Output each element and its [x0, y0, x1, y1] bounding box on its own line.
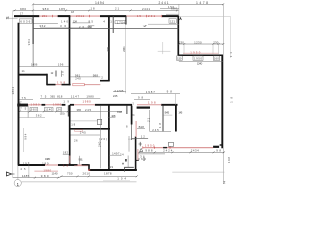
red vert window x136: [137, 149, 139, 160]
svg-text:245: 245: [80, 130, 86, 134]
dark segs: [42, 104, 178, 106]
svg-text:365: 365: [50, 95, 55, 99]
red segs: [28, 104, 162, 106]
dim line y154 right: [139, 153, 165, 155]
box outside corner: [125, 167, 134, 171]
vert x28: [27, 106, 29, 118]
svg-text:150: 150: [177, 57, 182, 61]
wall y107.6: [137, 106, 150, 108]
svg-text:1878: 1878: [104, 171, 112, 175]
small dark arrow: [143, 25, 147, 27]
faint line: [103, 180, 130, 182]
svg-text:1140: 1140: [52, 171, 58, 175]
dim line row1: [33, 3, 223, 5]
svg-text:240: 240: [97, 141, 101, 147]
line y14.2: [166, 13, 179, 15]
svg-text:988: 988: [93, 73, 99, 77]
svg-text:1406: 1406: [31, 63, 38, 67]
wall x126 short: [125, 16, 127, 25]
svg-text:75: 75: [22, 96, 27, 100]
top wall window red segments: [39, 15, 162, 17]
vert dim line x23.6: [23, 128, 25, 152]
svg-text:750: 750: [67, 171, 73, 175]
svg-text:45: 45: [20, 167, 26, 171]
svg-text:1485: 1485: [22, 174, 30, 178]
ext x230: [229, 16, 231, 58]
svg-text:19: 19: [63, 99, 69, 103]
svg-text:21: 21: [115, 7, 119, 11]
step corner x88-90: [88, 164, 90, 170]
vert tick x79.6: [79, 156, 81, 165]
dim line y98.3: [40, 97, 100, 99]
wall x70 lower: [69, 105, 71, 166]
dark corner seg right: [213, 146, 219, 148]
svg-text:B: B: [122, 89, 124, 93]
thin vert x100.6: [100, 106, 102, 169]
svg-text:201: 201: [42, 14, 47, 18]
svg-text:201: 201: [148, 14, 155, 18]
svg-text:B45: B45: [165, 110, 170, 114]
dim ticks y111.4: [19, 110, 69, 112]
dim line y152.3: [139, 151, 225, 153]
svg-text:(20): (20): [99, 137, 107, 141]
red line over mid: [74, 165, 90, 167]
svg-text:230: 230: [179, 40, 184, 44]
svg-text:1147: 1147: [71, 94, 80, 98]
wall x170.5: [175, 106, 177, 132]
svg-text:984: 984: [27, 39, 31, 45]
dim line y99.7: [20, 99, 34, 101]
svg-text:121: 121: [170, 19, 175, 23]
extension x223 right full: [222, 4, 224, 184]
red ticks: [143, 146, 170, 148]
wall stub y80.7: [100, 80, 110, 82]
svg-text:981: 981: [79, 158, 84, 162]
vert dim tick x61.5: [61, 71, 63, 77]
top-right wall y55: [178, 54, 223, 56]
thin line y26.8: [33, 28, 179, 30]
svg-text:198: 198: [227, 157, 231, 163]
dim ticks row2: [14, 3, 225, 11]
bottom-left wall y165: [18, 164, 89, 166]
svg-text:1980: 1980: [31, 103, 40, 107]
red segs bottom-left wall: [45, 164, 82, 166]
svg-text:198: 198: [148, 100, 156, 104]
closet divider x113: [112, 16, 114, 33]
extension x179 top: [178, 4, 180, 16]
svg-text:2441: 2441: [122, 46, 126, 52]
svg-text:198: 198: [57, 80, 65, 84]
svg-text:1950: 1950: [190, 50, 200, 54]
svg-text:1494: 1494: [95, 1, 104, 5]
small arrow mark: [140, 148, 143, 151]
thin vert x149.7: [149, 110, 151, 132]
svg-text:185: 185: [59, 7, 65, 11]
dim line y111.4: [20, 110, 123, 112]
svg-text:15: 15: [63, 163, 68, 167]
svg-text:980: 980: [20, 7, 26, 11]
svg-text:1987: 1987: [146, 90, 156, 94]
leader from S: [9, 17, 18, 19]
svg-text:362: 362: [36, 113, 42, 117]
svg-text:6036: 6036: [20, 19, 30, 23]
svg-text:98: 98: [167, 90, 173, 94]
svg-text:18: 18: [61, 71, 65, 76]
dim line y176.3 mid: [60, 175, 137, 177]
extension verticals from y44: [184, 44, 219, 54]
svg-text:984: 984: [23, 133, 27, 139]
svg-text:12: 12: [51, 71, 54, 75]
wall x161.3: [162, 106, 164, 132]
svg-text:980: 980: [41, 174, 49, 178]
svg-text:140: 140: [61, 20, 68, 24]
svg-text:2: 2: [223, 181, 225, 185]
red dim line left: [34, 170, 58, 172]
step wall x178 top right: [177, 16, 179, 56]
red seg on wall: [75, 130, 83, 132]
box 1704: [115, 21, 126, 24]
extension x33 top: [32, 4, 34, 16]
top wall dark segments: [14, 15, 179, 17]
svg-text:24: 24: [120, 152, 124, 156]
line y138.4: [131, 137, 148, 139]
dark pier rect: [128, 136, 130, 152]
svg-text:145: 145: [178, 110, 182, 114]
wall segs dark: [47, 84, 71, 86]
bottom-mid wall y170: [89, 169, 137, 171]
svg-text:2011: 2011: [76, 14, 84, 18]
svg-text:1980: 1980: [83, 99, 92, 103]
dark bits on red wall: [163, 147, 167, 149]
red window ticks: [53, 15, 162, 17]
svg-text:1980: 1980: [86, 94, 94, 98]
wall x69 upper: [69, 16, 71, 85]
svg-text:11: 11: [22, 69, 26, 73]
svg-text:1980: 1980: [53, 103, 61, 107]
line y8.6: [160, 8, 179, 10]
svg-text:15: 15: [137, 14, 141, 18]
svg-text:26: 26: [74, 138, 78, 142]
jamb tick x70 below: [67, 105, 69, 116]
svg-text:980: 980: [43, 7, 49, 11]
svg-text:S: S: [5, 16, 10, 19]
svg-text:98: 98: [216, 149, 221, 153]
wall x131.6: [131, 106, 133, 125]
red bit at step: [88, 169, 90, 171]
svg-text:1864: 1864: [11, 87, 15, 95]
red vert x135.9 upper: [135, 121, 137, 137]
dim line y61.6: [179, 61, 223, 63]
svg-text:818: 818: [57, 94, 63, 98]
wall y128.2: [70, 128, 111, 130]
box 6036: [19, 19, 32, 23]
wall y74.7 left: [19, 74, 48, 76]
svg-text:1950: 1950: [194, 57, 202, 61]
dim B18: [137, 127, 145, 129]
small box above wall: [98, 119, 102, 124]
svg-text:26: 26: [79, 25, 85, 29]
dim line y178: [13, 177, 60, 179]
svg-text:B18: B18: [139, 125, 145, 129]
svg-text:1980: 1980: [43, 168, 51, 172]
svg-text:119: 119: [108, 165, 114, 169]
svg-text:1950: 1950: [145, 144, 155, 148]
box 121: [169, 19, 176, 24]
extension line left x13: [12, 10, 14, 178]
svg-text:98: 98: [138, 96, 143, 100]
svg-text:1980: 1980: [45, 157, 51, 161]
svg-text:1230: 1230: [194, 40, 202, 44]
svg-text:240: 240: [75, 76, 81, 80]
wall x33: [32, 16, 34, 44]
svg-text:118: 118: [142, 157, 146, 161]
wall x136 rising: [135, 137, 137, 171]
vert x28.9: [28, 162, 30, 178]
left wall: [18, 23, 20, 166]
svg-text:1140: 1140: [45, 108, 52, 112]
dim line y154.3 short: [63, 153, 69, 155]
svg-text:21: 21: [147, 117, 151, 121]
bubble 1 bottom: [14, 180, 21, 187]
svg-text:898: 898: [117, 110, 122, 114]
red segs: [56, 84, 101, 86]
jamb tick x56: [55, 71, 57, 77]
svg-text:245: 245: [114, 89, 121, 93]
wall x47 down: [46, 74, 48, 86]
thin line y117.5: [20, 117, 46, 119]
svg-text:160: 160: [214, 57, 219, 61]
red box: [73, 83, 85, 85]
dim line y76.9: [70, 76, 100, 78]
dim line y44: [179, 43, 223, 45]
dim ticks y176.3: [61, 175, 138, 177]
svg-text:1240: 1240: [197, 61, 203, 65]
svg-text:1704: 1704: [117, 20, 125, 24]
svg-text:980: 980: [31, 108, 37, 112]
svg-text:18: 18: [91, 7, 95, 11]
svg-text:245: 245: [85, 108, 91, 112]
gray line y172.1: [172, 171, 224, 173]
dim line segs y23: [33, 22, 58, 24]
svg-text:1478: 1478: [196, 1, 208, 5]
thin line y24.2 right: [148, 23, 179, 25]
dim line y131.4: [150, 130, 171, 132]
red dim line y53: [183, 52, 219, 54]
drain cross: [139, 142, 142, 146]
svg-text:988: 988: [145, 149, 152, 153]
svg-text:12: 12: [141, 135, 146, 139]
svg-text:196: 196: [58, 63, 64, 67]
svg-text:104: 104: [117, 176, 126, 180]
svg-text:230: 230: [213, 40, 218, 44]
triangle marker left: [6, 172, 11, 176]
svg-text:17: 17: [19, 101, 22, 105]
svg-text:365: 365: [77, 108, 82, 112]
svg-text:245: 245: [113, 94, 118, 98]
thin line y27.4: [40, 27, 90, 29]
wall x108.9: [108, 16, 110, 81]
dim line row2: [13, 9, 179, 11]
svg-text:245: 245: [152, 128, 159, 132]
svg-text:11: 11: [229, 52, 233, 57]
svg-text:18: 18: [71, 123, 75, 127]
svg-text:150: 150: [168, 5, 174, 9]
svg-text:2441: 2441: [142, 7, 150, 11]
thin line y135: [70, 134, 101, 136]
svg-text:182: 182: [63, 151, 69, 155]
svg-text:2010: 2010: [83, 171, 91, 175]
svg-text:2424: 2424: [163, 149, 173, 153]
right wall x222: [221, 55, 223, 149]
svg-text:2441: 2441: [106, 46, 110, 52]
red seg on x70 wall: [69, 156, 71, 164]
svg-text:2434: 2434: [191, 149, 199, 153]
svg-text:(30): (30): [60, 112, 65, 116]
thin line y120.9: [70, 120, 98, 122]
window boxes in wall: [177, 56, 220, 60]
dim line y66.6: [20, 66, 70, 68]
thin roof line right: [179, 15, 231, 17]
dim line y93.2: [113, 91, 126, 93]
dim ticks y152.3: [139, 151, 225, 153]
small box on wall: [168, 143, 173, 147]
vert x17.9 low: [17, 166, 19, 180]
